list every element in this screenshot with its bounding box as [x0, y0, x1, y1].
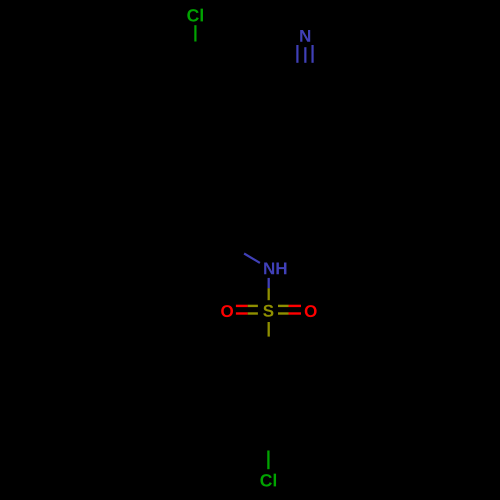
double bond S=O left: [236, 306, 258, 314]
triple bond C#N (N half): [297, 45, 312, 63]
amine label NH: [264, 263, 286, 275]
oxygen label O right: [305, 305, 317, 317]
bond N-S lower half (olive): [268, 288, 270, 300]
bond S-C half (down to ring): [268, 322, 270, 337]
sulfur label S: [263, 305, 273, 317]
bond CH2-NH half (diagonal): [244, 254, 260, 263]
oxygen label O left: [221, 305, 233, 317]
nitrogen label N (nitrile): [300, 30, 310, 42]
double bond S=O right: [278, 306, 301, 314]
bond Cl-C half (top): [194, 25, 196, 41]
chlorine label Cl top: [187, 9, 203, 22]
bond C-Cl half (bottom): [267, 451, 269, 470]
chlorine label Cl bottom: [260, 474, 276, 487]
bond N-S upper half (blue): [268, 278, 270, 288]
